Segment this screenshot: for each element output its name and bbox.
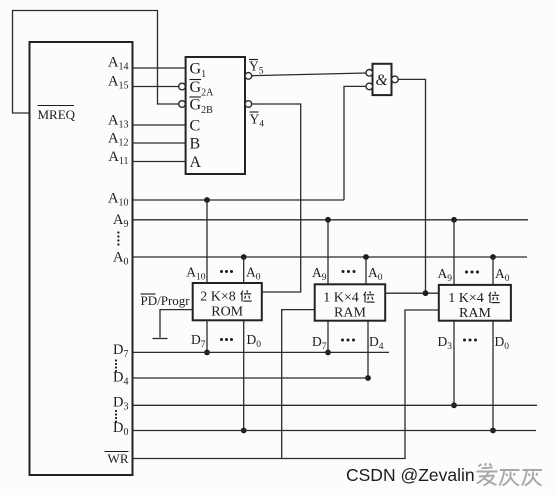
wire RAM2 A9 pin [453,220,455,285]
svg-text:B: B [190,136,201,153]
svg-text:CSDN @Zevalin: CSDN @Zevalin [346,465,475,485]
svg-text:&: & [376,72,388,89]
svg-text:RAM: RAM [459,306,491,321]
watermark [346,463,542,486]
node CS [423,290,429,296]
wire D0 bus [133,430,537,432]
svg-text:C: C [190,118,201,135]
decoder pin G2A [179,79,214,99]
wire AND output to RAM CS [398,79,425,293]
RAM2 label [448,291,499,321]
svg-text:A12: A12 [108,131,128,149]
svg-text:A0: A0 [495,266,510,284]
svg-text:D7: D7 [113,342,128,360]
node D0-ROM [241,428,247,434]
svg-text:Y4: Y4 [250,112,265,130]
decoder output Y4 [245,101,264,130]
svg-text:G2B: G2B [190,97,214,117]
wire D3 bus [133,404,538,406]
RAM1 address ellipsis [342,270,356,273]
wire RAM2 D0 pin [492,321,494,431]
RAM2 U5 box [439,285,511,321]
node A9-RAM1 [325,217,331,223]
svg-text:A15: A15 [108,74,128,92]
wire RAM2 D3 pin [453,321,455,406]
CPU data ellipsis dots lower [115,410,117,423]
svg-text:ROM: ROM [211,305,243,320]
ROM label [200,289,251,319]
wire RAM1 D7 pin [327,321,329,353]
wire ROM A10 pin [206,200,208,283]
ground [153,338,168,340]
svg-text:A14: A14 [108,55,128,73]
svg-text:1 K×4: 1 K×4 [448,291,484,306]
wire D7 bus [133,351,390,353]
node D0-RAM2 [490,428,496,434]
wire D4 bus [133,377,369,379]
wire ROM A0 pin [243,257,245,283]
node A9-RAM2 [451,217,457,223]
wire ROM D7 pin [206,320,208,352]
WR label [105,451,129,466]
svg-text:A0: A0 [113,250,128,268]
MREQ label [38,106,76,123]
node A10-ROM [204,197,210,203]
wire RAM1 A0 pin [365,257,367,284]
RAM1 U4 box [315,284,386,320]
svg-text:D0: D0 [495,334,510,352]
RAM1 data ellipsis [341,339,355,342]
wire RAM2 A0 pin [492,257,494,285]
wire Y5 to AND gate [252,73,366,76]
svg-text:A13: A13 [108,113,128,131]
wire A11 to A [133,161,186,163]
svg-text:D0: D0 [247,332,262,350]
svg-text:A9: A9 [438,266,453,284]
svg-text:D7: D7 [191,332,206,350]
svg-text:PD/Progr: PD/Progr [141,293,191,308]
node A0-RAM1 [363,254,369,260]
svg-text:2 K×8: 2 K×8 [200,289,236,304]
wire PD to ground [160,310,193,338]
svg-text:D3: D3 [438,334,453,352]
svg-text:G1: G1 [190,61,207,81]
node D7-RAM1 [325,350,331,356]
wire A10 bus [133,199,345,201]
svg-text:1 K×4: 1 K×4 [323,290,359,305]
wire A10 to AND gate input [344,86,366,200]
wire A14 to G1 [133,67,186,69]
svg-text:D0: D0 [113,420,128,438]
node D3-RAM2 [451,402,457,408]
node D7-ROM [204,350,210,356]
wire A9 bus [133,219,529,221]
svg-text:D4: D4 [113,370,128,388]
CPU data ellipsis dots upper [115,359,117,372]
CPU address ellipsis dots [117,231,119,245]
svg-text:A9: A9 [113,212,128,230]
svg-text:MREQ: MREQ [38,107,76,122]
node A0-ROM [241,254,247,260]
svg-text:D4: D4 [369,334,384,352]
wire A15 to G2A [133,86,179,88]
wire RAM1 A9 pin [327,220,329,284]
ROM address ellipsis [220,270,233,273]
decoder output Y5 [245,59,264,80]
svg-text:A11: A11 [108,149,128,167]
svg-text:A0: A0 [246,265,261,283]
wire ROM D0 pin [243,320,245,430]
wire A12 to B [133,142,186,144]
svg-text:WR: WR [108,451,129,466]
svg-text:A9: A9 [312,265,327,283]
ROM data ellipsis [220,338,233,341]
decoder pin G2B [179,97,213,117]
svg-text:A0: A0 [368,265,383,283]
svg-text:A10: A10 [108,191,128,209]
CPU box [30,42,133,475]
RAM2 data ellipsis [463,339,477,342]
node D4-RAM1 [365,375,371,381]
wire A0 bus [133,256,528,258]
wire Y4 to ROM select [252,104,301,292]
svg-text:RAM: RAM [334,306,366,321]
PD/Progr label [141,293,191,308]
wire WR to RAM1 RW [282,310,315,459]
decoder U1 box [186,57,245,174]
node A0-RAM2 [490,254,496,260]
wire WR bus to RAM2 RW [133,310,439,459]
svg-text:D7: D7 [312,334,327,352]
svg-text:D3: D3 [113,395,128,413]
ROM U3 box [193,283,262,320]
svg-text:A: A [190,154,202,171]
wire RAM CS link [385,292,439,294]
gate U2 AND [366,64,398,95]
wire A13 to C [133,124,186,126]
RAM2 address ellipsis [465,271,479,274]
wire MREQ route to G2B [13,11,179,114]
wire RAM1 D4 pin [367,321,369,378]
svg-text:A10: A10 [186,265,206,283]
RAM1 label [323,290,374,320]
